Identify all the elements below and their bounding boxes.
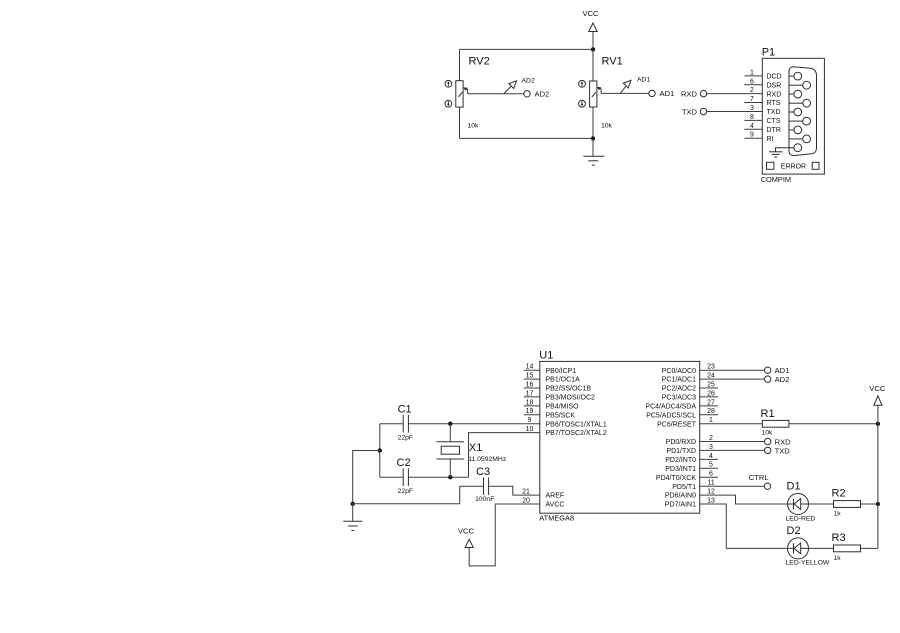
svg-text:R3: R3 <box>832 532 846 544</box>
svg-text:COMPIM: COMPIM <box>761 175 791 184</box>
svg-text:21: 21 <box>522 489 530 496</box>
wire left branch <box>379 424 381 478</box>
wire pin9 row XTAL1 <box>380 423 540 425</box>
U1 pin 19 PB5/SCK <box>524 408 576 419</box>
svg-text:10: 10 <box>526 426 534 433</box>
svg-text:RV1: RV1 <box>602 56 623 68</box>
wire D1 to R2 <box>809 503 834 505</box>
svg-text:23: 23 <box>707 364 715 371</box>
svg-text:13: 13 <box>707 497 715 504</box>
svg-text:PB4/MISO: PB4/MISO <box>546 404 580 411</box>
P1 DB9 housing <box>789 67 817 156</box>
wire RV2 bottom lead <box>459 107 461 139</box>
svg-text:RXD: RXD <box>767 91 782 98</box>
P1 pin 6 DSR <box>744 78 781 89</box>
svg-text:TXD: TXD <box>682 107 698 116</box>
U1 pin 25 PC2/ADC2 <box>662 381 718 392</box>
wire pin10 row XTAL2 <box>469 433 540 478</box>
svg-text:CTS: CTS <box>767 118 781 125</box>
U1 pin 9 PB6/TOSC1/XTAL1 <box>528 417 607 428</box>
capacitor C1 <box>398 403 414 441</box>
svg-text:PC0/ADC0: PC0/ADC0 <box>662 368 696 375</box>
svg-text:PD1/TXD: PD1/TXD <box>666 448 696 455</box>
svg-text:P1: P1 <box>762 47 775 59</box>
svg-text:12: 12 <box>707 489 715 496</box>
wire pin23 to AD1 <box>700 369 764 371</box>
svg-text:D1: D1 <box>787 481 801 493</box>
terminal TXD lower <box>765 446 791 455</box>
svg-text:ERROR: ERROR <box>781 164 806 171</box>
U1 pin 15 PB1/OC1A <box>524 373 580 384</box>
wire D2 to R3 <box>809 547 834 549</box>
svg-text:AD1: AD1 <box>775 366 790 375</box>
wire RV1 top lead <box>592 49 594 81</box>
node at ground <box>591 136 595 140</box>
wire RXD to P1 pin2 <box>707 93 763 95</box>
svg-text:DCD: DCD <box>767 74 782 81</box>
svg-text:1: 1 <box>709 417 713 424</box>
P1 ERROR indicator <box>767 162 820 170</box>
svg-text:R1: R1 <box>761 408 775 420</box>
svg-text:1k: 1k <box>834 511 842 518</box>
svg-text:U1: U1 <box>539 349 553 361</box>
wire RV1 wiper <box>601 92 649 94</box>
svg-text:2: 2 <box>750 87 754 94</box>
U1 pin 13 PD7/AIN1 <box>665 497 715 508</box>
svg-text:8: 8 <box>750 114 754 121</box>
svg-text:X1: X1 <box>469 442 482 454</box>
U1 pin 14 PB0/ICP1 <box>524 364 577 375</box>
terminal AD2 lower <box>765 375 790 384</box>
svg-text:PD3/INT1: PD3/INT1 <box>665 466 696 473</box>
svg-text:24: 24 <box>707 373 715 380</box>
wire AVCC pin20 to VCC flag <box>469 504 540 566</box>
svg-text:C1: C1 <box>398 403 412 415</box>
svg-text:DTR: DTR <box>767 127 781 134</box>
svg-text:C3: C3 <box>476 466 490 478</box>
svg-text:9: 9 <box>528 417 532 424</box>
svg-text:PC2/ADC2: PC2/ADC2 <box>662 386 696 393</box>
svg-text:3: 3 <box>709 444 713 451</box>
wire C2 row <box>380 476 469 478</box>
P1 pin 8 CTS <box>744 114 781 125</box>
svg-text:LED-YELLOW: LED-YELLOW <box>786 559 830 566</box>
svg-text:PC4/ADC4/SDA: PC4/ADC4/SDA <box>645 404 696 411</box>
wire pin11 to CTRL <box>700 485 764 487</box>
U1 pin 10 PB7/TOSC2/XTAL2 <box>526 426 607 437</box>
power flag VCC bottom <box>458 527 475 548</box>
svg-text:1k: 1k <box>834 555 842 562</box>
power flag VCC right <box>869 384 886 405</box>
svg-text:LED-RED: LED-RED <box>786 515 816 522</box>
potentiometer RV1 <box>579 56 651 130</box>
svg-text:PB0/ICP1: PB0/ICP1 <box>546 368 577 375</box>
svg-text:11.0592MHz: 11.0592MHz <box>468 456 507 463</box>
U1 pin 2 PD0/RXD <box>666 435 713 446</box>
svg-text:10k: 10k <box>468 123 480 130</box>
svg-text:7: 7 <box>750 96 754 103</box>
svg-text:AD2: AD2 <box>535 90 550 99</box>
node C2 crystal <box>448 475 452 479</box>
wire RV2 wiper <box>468 93 524 95</box>
wire C3 to AREF pin21 <box>489 486 540 495</box>
wire to ground rail <box>353 451 380 504</box>
svg-text:5: 5 <box>709 462 713 469</box>
node ground rail <box>351 502 355 506</box>
svg-text:TXD: TXD <box>775 446 791 455</box>
svg-text:AD2: AD2 <box>775 375 790 384</box>
svg-text:22pF: 22pF <box>398 435 414 442</box>
svg-text:PD6/AIN0: PD6/AIN0 <box>665 493 696 500</box>
terminal TXD top <box>682 107 707 116</box>
wire bottom rail <box>460 137 594 139</box>
svg-text:4: 4 <box>709 453 713 460</box>
svg-text:DSR: DSR <box>767 83 782 90</box>
wire pin24 to AD2 <box>700 378 764 380</box>
node left branch <box>378 448 382 452</box>
capacitor C3 <box>475 466 494 503</box>
node at VCC rail top <box>591 47 595 51</box>
ground top section <box>583 138 604 165</box>
P1 pin 7 RTS <box>744 96 780 107</box>
U1 pin 6 PD4/T0/XCK <box>656 471 718 482</box>
terminal AD1 lower <box>765 366 790 375</box>
svg-text:PC3/ADC3: PC3/ADC3 <box>662 395 696 402</box>
svg-text:RV2: RV2 <box>469 56 490 68</box>
svg-text:9: 9 <box>750 132 754 139</box>
svg-text:4: 4 <box>750 123 754 130</box>
svg-text:VCC: VCC <box>458 527 475 536</box>
wire pin2 to RXD <box>700 441 764 443</box>
crystal X1 <box>437 424 507 478</box>
wire ground to C3 <box>353 486 484 504</box>
svg-text:22pF: 22pF <box>398 488 414 495</box>
P1 pin 3 TXD <box>750 105 780 116</box>
svg-text:28: 28 <box>707 408 715 415</box>
wire RV2 top lead <box>459 50 461 82</box>
svg-text:10k: 10k <box>762 430 774 437</box>
U1 pin 27 PC4/ADC4/SDA <box>645 399 718 410</box>
wire pin13 to D2 <box>700 504 788 548</box>
power flag VCC top <box>582 9 599 49</box>
svg-text:PB2/SS/OC1B: PB2/SS/OC1B <box>546 386 592 393</box>
svg-text:PD2/INT0: PD2/INT0 <box>665 457 696 464</box>
svg-text:11: 11 <box>707 480 714 487</box>
svg-text:PD5/T1: PD5/T1 <box>672 484 696 491</box>
P1 pin 1 DCD <box>744 69 781 80</box>
U1 pin 28 PC5/ADC5/SCL <box>646 408 718 419</box>
wire top rail <box>460 48 594 50</box>
svg-text:15: 15 <box>526 373 534 380</box>
svg-text:PB5/SCK: PB5/SCK <box>546 412 576 419</box>
svg-text:RXD: RXD <box>775 437 792 446</box>
svg-text:PB6/TOSC1/XTAL1: PB6/TOSC1/XTAL1 <box>546 421 607 428</box>
wire pin12 to D1 <box>700 495 788 504</box>
wire R2 to VCC rail <box>861 503 878 505</box>
svg-text:6: 6 <box>709 471 713 478</box>
svg-text:18: 18 <box>526 399 534 406</box>
svg-text:2: 2 <box>709 435 713 442</box>
svg-text:PD4/T0/XCK: PD4/T0/XCK <box>656 475 696 482</box>
U1 pin 18 PB4/MISO <box>524 399 579 410</box>
svg-text:1: 1 <box>750 69 754 76</box>
U1 pin 4 PD2/INT0 <box>665 453 718 464</box>
U1 pin 20 AVCC <box>522 497 564 508</box>
svg-text:3: 3 <box>750 105 754 112</box>
P1 pin 2 RXD <box>750 87 781 98</box>
svg-text:PC1/ADC1: PC1/ADC1 <box>662 377 696 384</box>
node R1 rail <box>876 422 880 426</box>
wire RV1 bottom lead <box>592 107 594 138</box>
U1 pin 5 PD3/INT1 <box>665 462 718 473</box>
svg-text:PC5/ADC5/SCL: PC5/ADC5/SCL <box>646 412 696 419</box>
svg-text:PC6/RESET: PC6/RESET <box>657 421 697 428</box>
U1 pin 24 PC1/ADC1 <box>662 373 715 384</box>
svg-text:17: 17 <box>526 390 534 397</box>
svg-text:PD0/RXD: PD0/RXD <box>666 439 696 446</box>
resistor R1 <box>761 408 789 437</box>
resistor R3 <box>832 532 861 562</box>
U1 pin 23 PC0/ADC0 <box>662 364 715 375</box>
wire R1 to VCC rail <box>789 423 878 425</box>
U1 pin 21 AREF <box>522 489 564 500</box>
svg-text:RI: RI <box>767 136 774 143</box>
svg-text:PB3/MOSI/OC2: PB3/MOSI/OC2 <box>546 395 596 402</box>
svg-text:VCC: VCC <box>869 384 886 393</box>
svg-text:6: 6 <box>750 78 754 85</box>
U1 pin 17 PB3/MOSI/OC2 <box>524 390 595 401</box>
ground bottom section <box>343 504 362 531</box>
svg-text:10k: 10k <box>601 123 613 130</box>
U1 pin 26 PC3/ADC3 <box>662 390 718 401</box>
svg-text:100nF: 100nF <box>475 496 494 503</box>
svg-text:AREF: AREF <box>546 493 565 500</box>
svg-text:AD2: AD2 <box>522 78 535 85</box>
wire TXD to P1 pin3 <box>707 111 763 113</box>
U1 pin 12 PD6/AIN0 <box>665 489 715 500</box>
svg-text:PD7/AIN1: PD7/AIN1 <box>665 502 696 509</box>
capacitor C2 <box>397 457 414 495</box>
terminal RXD lower <box>765 437 792 446</box>
terminal RXD top <box>681 89 707 98</box>
svg-text:RTS: RTS <box>767 100 781 107</box>
svg-text:27: 27 <box>707 399 715 406</box>
svg-text:16: 16 <box>526 381 534 388</box>
svg-text:TXD: TXD <box>767 109 781 116</box>
svg-text:26: 26 <box>707 390 715 397</box>
resistor R2 <box>832 488 861 518</box>
connector P1 COMPIM <box>761 47 825 184</box>
svg-text:ATMEGA8: ATMEGA8 <box>539 514 574 523</box>
diode D2 LED-YELLOW <box>786 525 830 567</box>
P1 internal ground <box>769 148 794 157</box>
wire pin1 RESET to R1 <box>700 423 762 425</box>
P1 pin 9 RI <box>744 132 773 143</box>
svg-text:14: 14 <box>526 364 534 371</box>
U1 pin 16 PB2/SS/OC1B <box>524 381 592 392</box>
svg-text:25: 25 <box>707 381 715 388</box>
wire pin3 to TXD <box>700 449 764 451</box>
U1 pin 11 PD5/T1 <box>672 480 714 491</box>
svg-text:R2: R2 <box>832 488 846 500</box>
svg-text:D2: D2 <box>787 525 801 537</box>
svg-text:RXD: RXD <box>681 89 698 98</box>
svg-text:19: 19 <box>526 408 534 415</box>
U1 pin 1 PC6/RESET <box>657 417 713 428</box>
wire VCC rail right <box>877 405 879 548</box>
microcontroller U1 ATMEGA8 <box>539 349 699 522</box>
node C1 crystal <box>448 422 452 426</box>
wire R3 to VCC rail <box>861 547 878 549</box>
svg-text:VCC: VCC <box>582 9 599 18</box>
svg-text:C2: C2 <box>397 457 411 469</box>
potentiometer RV2 <box>445 56 535 130</box>
U1 pin 3 PD1/TXD <box>666 444 713 455</box>
node R2 rail <box>876 502 880 506</box>
svg-text:20: 20 <box>522 497 530 504</box>
svg-text:AVCC: AVCC <box>546 502 565 509</box>
terminal AD2 <box>524 90 549 99</box>
svg-text:CTRL: CTRL <box>749 473 769 482</box>
svg-text:PB1/OC1A: PB1/OC1A <box>546 377 581 384</box>
terminal CTRL <box>749 473 771 489</box>
svg-text:AD1: AD1 <box>660 89 675 98</box>
svg-text:PB7/TOSC2/XTAL2: PB7/TOSC2/XTAL2 <box>546 430 607 437</box>
terminal AD1 <box>649 89 674 98</box>
P1 pin 4 DTR <box>744 123 781 134</box>
svg-text:AD1: AD1 <box>637 77 650 84</box>
diode D1 LED-RED <box>786 481 816 523</box>
